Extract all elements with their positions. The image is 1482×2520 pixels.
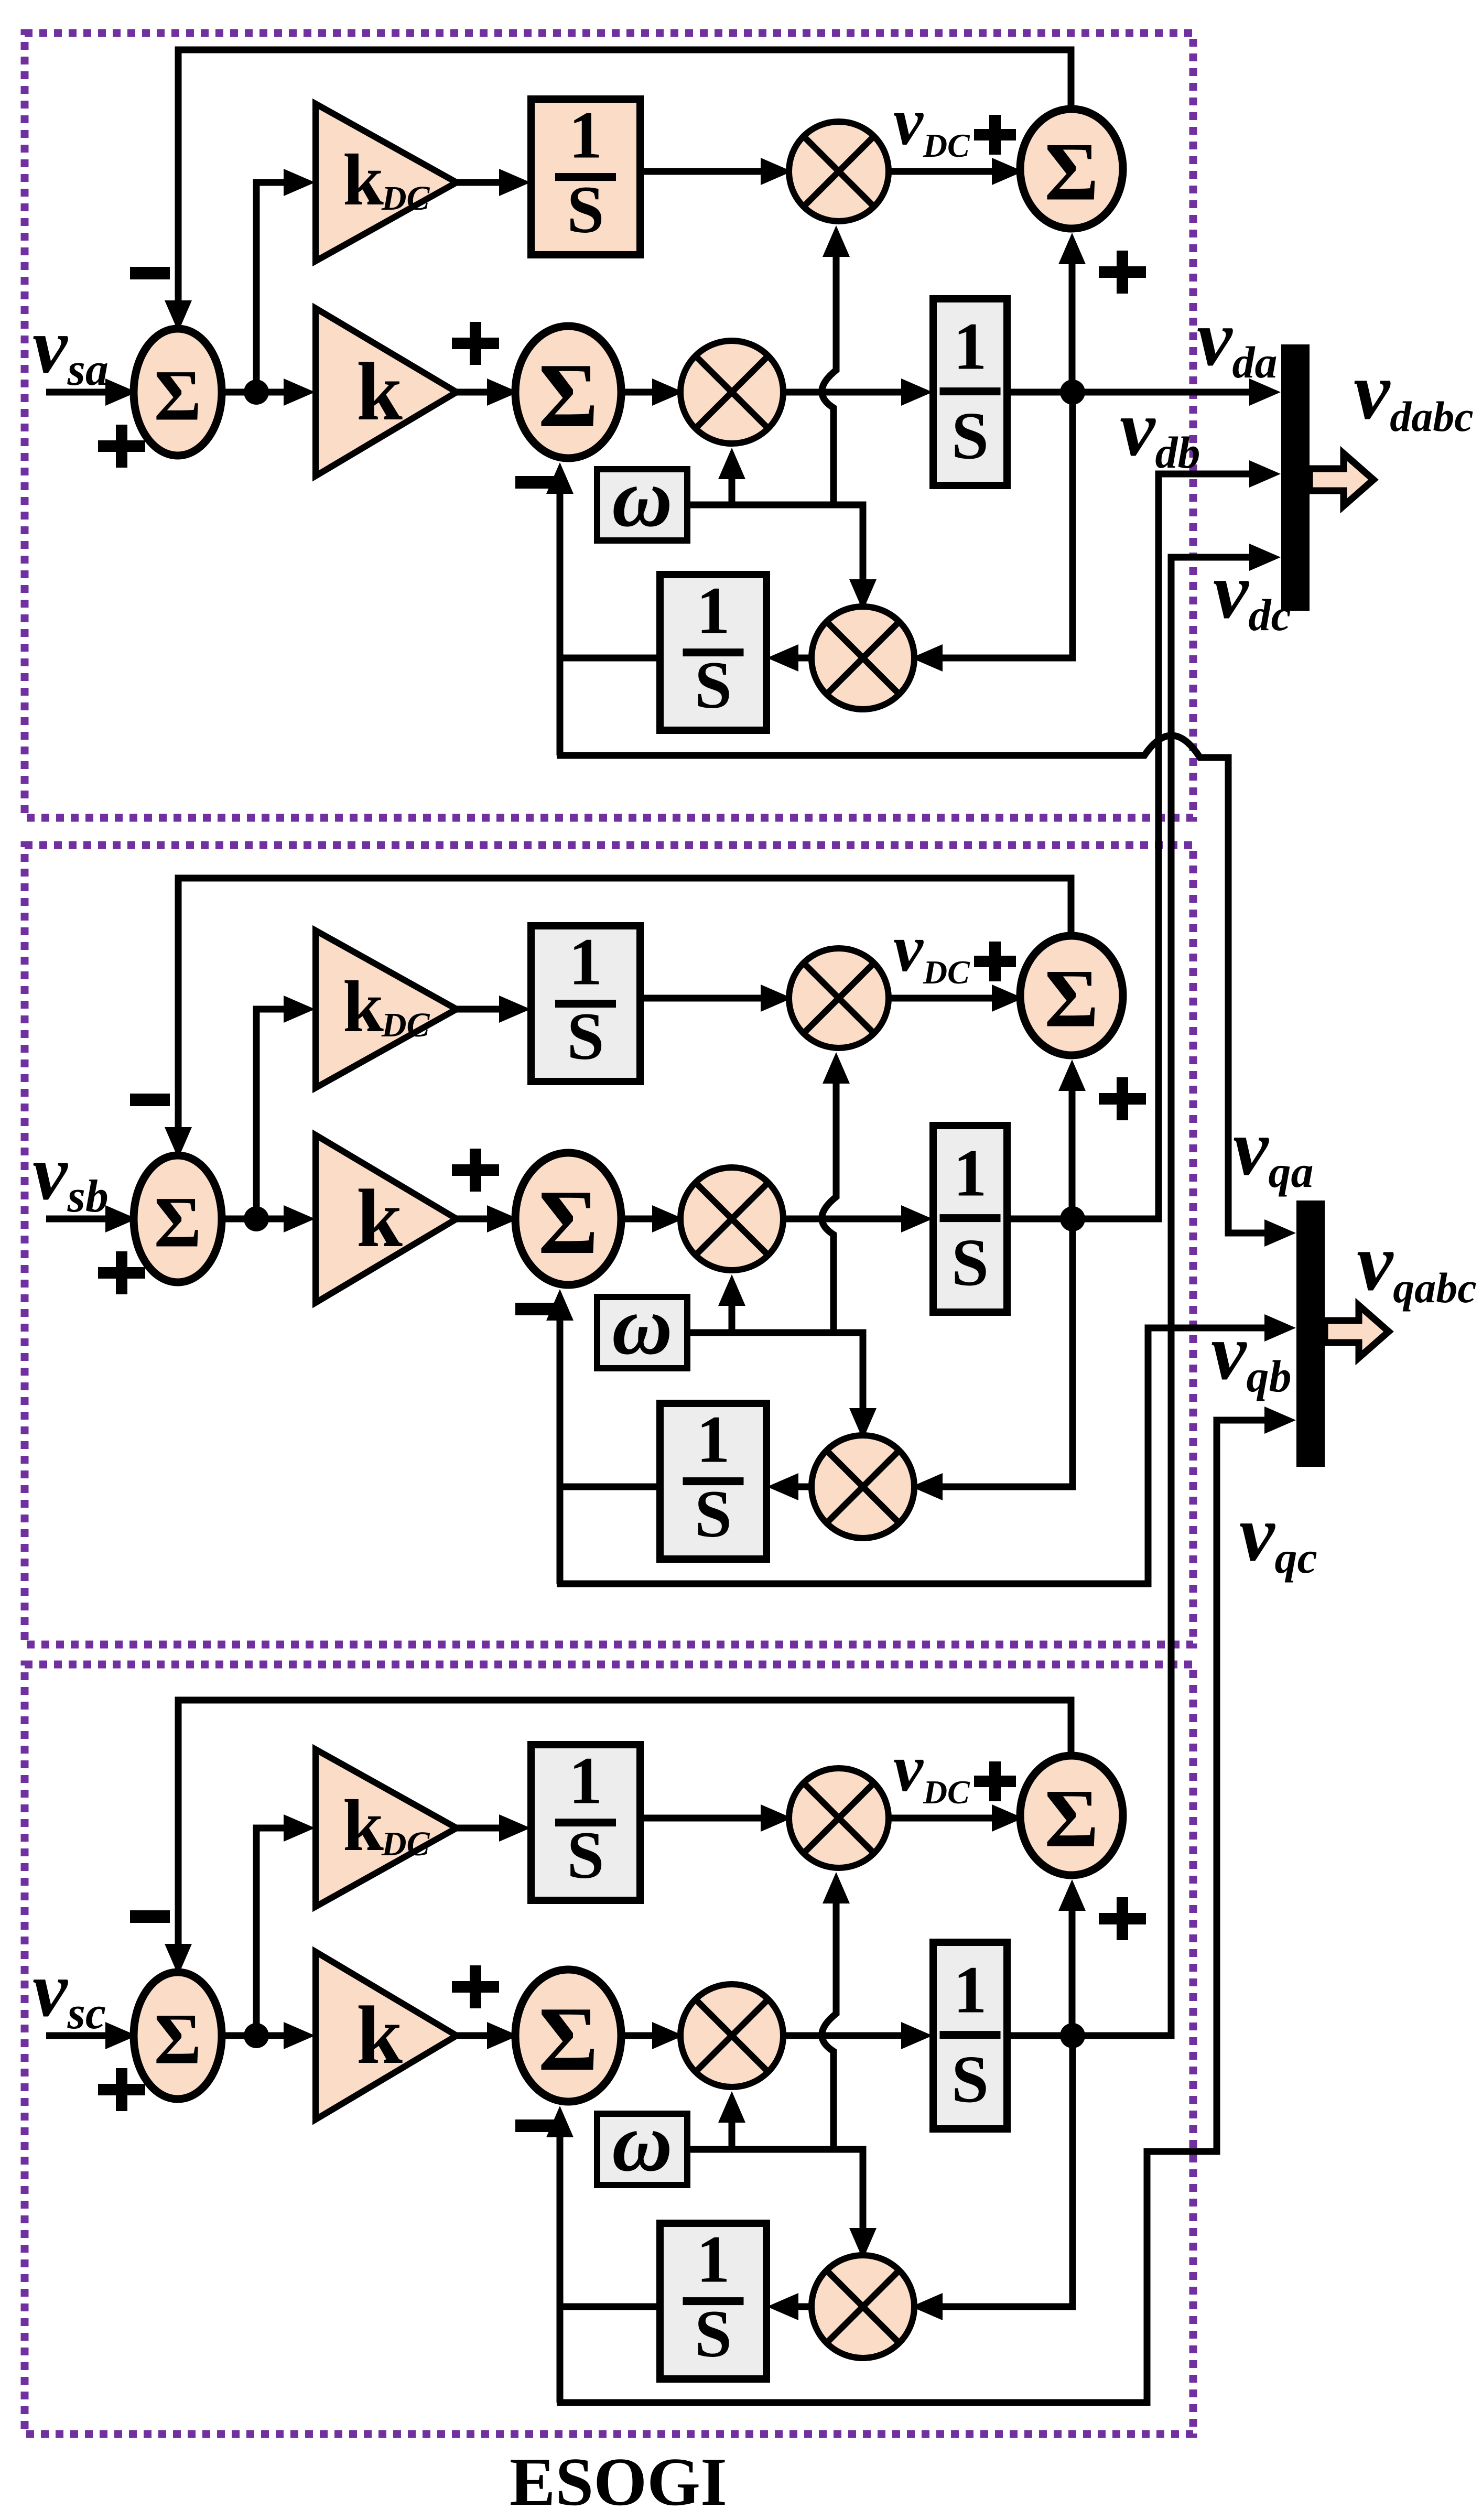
omega box phase c (597, 2095, 687, 2189)
wire: feedback from summer 3 output over top into summer 1 (phase c) (178, 1700, 1071, 1946)
sign + at summer 1 input (98, 1251, 145, 1294)
wire: branch up to gain k_DC (256, 182, 292, 392)
gain k (triangle) phase a (316, 308, 457, 476)
wire: summer2 output into multiplier 1 (619, 2032, 659, 2039)
multiplier 1 (omega product) phase a (680, 341, 783, 444)
wire: summer1 output to gain k with junction (220, 2032, 295, 2039)
svg-text:Σ: Σ (154, 1999, 201, 2079)
svg-text:Σ: Σ (538, 344, 598, 446)
wire: input v_sb arrow into summer (46, 1216, 113, 1223)
wire: junction2 down and left into multiplier 2 (935, 392, 1073, 658)
omega box phase b (597, 1279, 687, 1372)
wire: bottom quadrature rail (phase b) (557, 1328, 1270, 1584)
wire: v_da output from cell a junction to d-bus (1073, 389, 1255, 396)
wire: integrator3 output left and up into summer2 minus input (560, 2128, 660, 2307)
node: junction at integrator2 output (v_dc) (1007, 2032, 1104, 2039)
integrator 1/S (main) phase a (933, 299, 1007, 485)
integrator 1/S (quadrature) phase a (660, 573, 766, 730)
wire: multiplier2 output into integrator 3 (787, 1484, 814, 1490)
summer S2 phase a (515, 326, 621, 458)
svg-text:1: 1 (697, 573, 730, 647)
wire: branch up to gain k_DC (256, 1009, 292, 1219)
wire: quadrature output down to bottom rail (phase b) (557, 1487, 564, 1584)
svg-text:S: S (695, 2297, 732, 2371)
multiplier (DC) phase c (789, 1768, 889, 1868)
wire: summer2 output into multiplier 1 (619, 1216, 659, 1223)
wire: omega branch up to DC multiplier, swerving over main line (822, 1894, 836, 2149)
summer S3 (DC correction) phase b (1020, 936, 1123, 1055)
svg-text:Σ: Σ (1044, 126, 1098, 218)
sign + at summer3 left input (974, 942, 1016, 981)
wire: v_db output riser from cell b to d-bus (1073, 474, 1255, 1219)
wire: quadrature output down to bottom rail (phase a) (557, 658, 564, 755)
gain k_DC (triangle) phase b (316, 931, 457, 1088)
summer S3 (DC correction) phase a (1020, 109, 1123, 229)
wire: omega to multiplier1 bottom input (687, 505, 863, 633)
svg-text:1: 1 (569, 924, 602, 999)
gain k (triangle) phase b (316, 1135, 457, 1303)
node: junction at summer1 output (244, 380, 269, 405)
sign + at summer3 bottom input (1099, 251, 1146, 294)
wire: input v_sc arrow into summer (46, 2032, 113, 2039)
gain k_DC (triangle) phase a (316, 104, 457, 261)
svg-text:1: 1 (697, 1402, 730, 1476)
node: junction at summer1 output (244, 1206, 269, 1231)
svg-text:ω: ω (612, 451, 673, 544)
node: junction at integrator2 output (v_da) (1007, 389, 1104, 396)
wire: bottom quadrature rail (phase a) (557, 736, 1270, 1233)
wire: integrator1 output to DC multiplier (640, 995, 768, 1002)
summer S1 phase b (134, 1155, 222, 1282)
svg-text:1: 1 (569, 1743, 602, 1818)
multiplier 2 (quadrature) phase c (812, 2255, 914, 2358)
wire: bottom quadrature rail (phase c) (557, 1420, 1270, 2403)
svg-text:ESOGI: ESOGI (510, 2444, 727, 2520)
wire: DC multiplier output v_DC into summer 3 (886, 1815, 999, 1822)
wire: quadrature output down to bottom rail (phase c) (557, 2307, 564, 2403)
wire: branch up to gain k_DC (256, 1828, 292, 2036)
wire: omega to multiplier1 bottom input (687, 2149, 863, 2281)
svg-text:1: 1 (697, 2222, 730, 2296)
wire: gain k output to summer 2 (457, 1216, 494, 1223)
wire: feedback from summer 3 output over top into summer 1 (phase b) (178, 878, 1071, 1129)
wire: feedback from summer 3 output over top into summer 1 (phase a) (178, 50, 1071, 302)
multiplier (DC) phase b (789, 948, 889, 1048)
wire: junction2 down and left into multiplier 2 (935, 1219, 1073, 1487)
svg-text:S: S (951, 398, 989, 473)
wire: summer1 output to gain k with junction (220, 389, 295, 396)
svg-text:Σ: Σ (538, 1171, 598, 1273)
svg-text:S: S (567, 1818, 604, 1892)
sign - at summer2 bottom input (515, 476, 555, 489)
integrator 1/S (main) phase c (933, 1942, 1007, 2129)
wire: junction2 up into summer3 bottom (1069, 1081, 1076, 1219)
multiplier 1 (omega product) phase b (680, 1167, 783, 1270)
svg-text:k: k (356, 346, 403, 438)
wire: junction2 down and left into multiplier 2 (935, 2036, 1073, 2307)
sign - at summer2 bottom input (515, 2119, 555, 2132)
multiplier 1 (omega product) phase c (680, 1984, 783, 2087)
ESOGI cell c dotted boundary (25, 1664, 1193, 2434)
sign + at summer3 left input (974, 115, 1016, 155)
svg-text:S: S (951, 2042, 989, 2116)
integrator 1/S (DC path) phase c (531, 1743, 640, 1900)
summer S1 phase a (134, 329, 222, 456)
wire: multiplier2 output into integrator 3 (787, 655, 814, 662)
wire: DC multiplier output v_DC into summer 3 (886, 168, 999, 175)
multiplier 2 (quadrature) phase a (812, 607, 914, 709)
integrator 1/S (main) phase b (933, 1126, 1007, 1312)
svg-text:Σ: Σ (154, 355, 201, 436)
wire: v_dc output riser from cell c to d-bus (1073, 557, 1255, 2036)
d-axis output bus bar (1281, 344, 1310, 611)
gain k (triangle) phase c (316, 1952, 457, 2119)
summer S2 phase b (515, 1153, 621, 1285)
v_qabc output arrow (1325, 1305, 1389, 1358)
wire: summer2 output into multiplier 1 (619, 389, 659, 396)
wire: junction2 up into summer3 bottom (1069, 255, 1076, 392)
svg-text:Σ: Σ (1044, 953, 1098, 1045)
omega box phase a (597, 451, 687, 544)
gain k_DC (triangle) phase c (316, 1749, 457, 1907)
integrator 1/S (quadrature) phase b (660, 1402, 766, 1559)
wire: multiplier2 output into integrator 3 (787, 2303, 814, 2310)
wire: gain k output to summer 2 (457, 389, 494, 396)
summer S2 phase c (515, 1970, 621, 2102)
svg-text:S: S (567, 172, 604, 247)
svg-text:Σ: Σ (154, 1182, 201, 1262)
node: junction at summer1 output (244, 2023, 269, 2048)
svg-text:1: 1 (954, 1953, 987, 2027)
wire: k_DC output to integrator 1 (457, 179, 510, 186)
multiplier (DC) phase a (789, 122, 889, 221)
wire: multiplier1 output to integrator 2 (781, 2032, 912, 2039)
multiplier 2 (quadrature) phase b (812, 1435, 914, 1538)
sign + at summer2 left input (452, 1965, 499, 2008)
sign + at summer3 bottom input (1099, 1077, 1146, 1120)
sign + at summer2 left input (452, 1149, 499, 1192)
wire: input v_sa arrow into summer (46, 389, 113, 396)
ESOGI cell b dotted boundary (25, 845, 1193, 1645)
wire: omega branch up to DC multiplier, swerving over main line (822, 247, 836, 505)
sign - at summer 1 feedback input (130, 1910, 170, 1923)
svg-text:ω: ω (612, 2095, 673, 2189)
summer S3 (DC correction) phase c (1020, 1756, 1123, 1875)
wire: junction2 up into summer3 bottom (1069, 1901, 1076, 2036)
wire: k_DC output to integrator 1 (457, 1006, 510, 1013)
wire: integrator3 output left and up into summer2 minus input (560, 484, 660, 658)
svg-text:Σ: Σ (1044, 1773, 1098, 1865)
integrator 1/S (DC path) phase a (531, 98, 640, 255)
svg-text:k: k (356, 1989, 403, 2081)
svg-text:Σ: Σ (538, 1988, 598, 2090)
wire: gain k output to summer 2 (457, 2032, 494, 2039)
sign + at summer 1 input (98, 2068, 145, 2111)
svg-text:1: 1 (954, 1136, 987, 1210)
svg-text:1: 1 (954, 309, 987, 384)
wire: omega to multiplier1 bottom input (687, 1333, 863, 1462)
wire: integrator1 output to DC multiplier (640, 168, 768, 175)
node: junction at integrator2 output (v_db) (1007, 1216, 1104, 1223)
svg-text:S: S (567, 999, 604, 1074)
wire: multiplier1 output to integrator 2 (781, 389, 912, 396)
wire: integrator3 output left and up into summer2 minus input (560, 1311, 660, 1487)
sign + at summer2 left input (452, 322, 499, 365)
svg-text:S: S (951, 1225, 989, 1300)
summer S1 phase c (134, 1972, 222, 2099)
svg-text:k: k (356, 1173, 403, 1264)
svg-text:1: 1 (569, 98, 602, 172)
v_dabc output arrow (1310, 453, 1373, 506)
sign + at summer 1 input (98, 425, 145, 468)
sign - at summer2 bottom input (515, 1303, 555, 1315)
wire: DC multiplier output v_DC into summer 3 (886, 995, 999, 1002)
sign + at summer3 bottom input (1099, 1897, 1146, 1940)
integrator 1/S (quadrature) phase c (660, 2222, 766, 2379)
svg-text:ω: ω (612, 1279, 673, 1372)
q-axis output bus bar (1296, 1200, 1325, 1467)
wire: multiplier1 output to integrator 2 (781, 1216, 912, 1223)
wire: integrator1 output to DC multiplier (640, 1815, 768, 1822)
wire: k_DC output to integrator 1 (457, 1825, 510, 1832)
sign + at summer3 left input (974, 1761, 1016, 1801)
sign - at summer 1 feedback input (130, 267, 170, 279)
wire: summer1 output to gain k with junction (220, 1216, 295, 1223)
svg-text:S: S (695, 648, 732, 722)
svg-text:S: S (695, 1477, 732, 1551)
wire: omega branch up to DC multiplier, swerving over main line (822, 1074, 836, 1333)
ESOGI cell a dotted boundary (25, 33, 1193, 818)
sign - at summer 1 feedback input (130, 1094, 170, 1106)
integrator 1/S (DC path) phase b (531, 924, 640, 1081)
